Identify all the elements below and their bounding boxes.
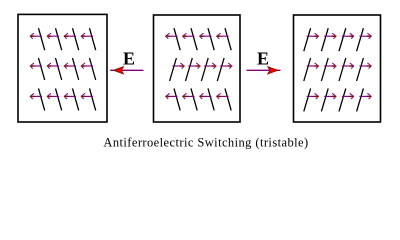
dipole unit right-box row3 col4 (tilt left, arrow right) bbox=[357, 88, 372, 111]
dipole unit right-box row1 col3 (tilt left, arrow right) bbox=[339, 28, 354, 51]
E field arrow pointing left (between left and middle boxes) bbox=[110, 67, 143, 74]
dipole unit left-box row2 col1 (tilt right, arrow left) bbox=[30, 58, 45, 80]
right box (ferroelectric state, polarization right) bbox=[294, 15, 381, 122]
dipole unit middle-box row3 col3 (tilt right, arrow left) bbox=[199, 88, 214, 110]
dipole unit left-box row3 col1 (tilt right, arrow left) bbox=[30, 88, 45, 110]
dipole unit middle-box row2 col4 (tilt left, arrow right) bbox=[217, 58, 232, 81]
dipole unit middle-box row1 col3 (tilt right, arrow left) bbox=[199, 28, 214, 50]
middle box (antiferroelectric state) bbox=[154, 15, 241, 122]
dipole unit right-box row3 col2 (tilt left, arrow right) bbox=[321, 88, 336, 111]
dipole unit left-box row1 col4 (tilt right, arrow left) bbox=[81, 28, 96, 50]
dipole unit left-box row1 col3 (tilt right, arrow left) bbox=[64, 28, 79, 50]
dipole unit left-box row2 col3 (tilt right, arrow left) bbox=[64, 58, 79, 80]
dipole unit left-box row1 col2 (tilt right, arrow left) bbox=[47, 28, 62, 50]
dipole unit right-box row3 col1 (tilt left, arrow right) bbox=[304, 88, 319, 111]
dipole unit middle-box row1 col1 (tilt right, arrow left) bbox=[165, 28, 180, 50]
E field arrow pointing right (between middle and right boxes) bbox=[247, 67, 281, 74]
dipole unit middle-box row3 col1 (tilt right, arrow left) bbox=[165, 88, 180, 110]
svg-text:E: E bbox=[123, 48, 135, 68]
dipole unit left-box row3 col3 (tilt right, arrow left) bbox=[64, 88, 79, 110]
dipole unit left-box row1 col1 (tilt right, arrow left) bbox=[30, 28, 45, 50]
dipole unit left-box row3 col4 (tilt right, arrow left) bbox=[81, 88, 96, 110]
svg-text:E: E bbox=[257, 48, 269, 68]
dipole unit middle-box row2 col2 (tilt left, arrow right) bbox=[186, 58, 201, 81]
dipole unit middle-box row2 col3 (tilt left, arrow right) bbox=[201, 58, 216, 81]
dipole unit middle-box row2 col1 (tilt left, arrow right) bbox=[170, 58, 185, 81]
dipole unit right-box row2 col3 (tilt left, arrow right) bbox=[339, 58, 354, 81]
dipole unit middle-box row1 col2 (tilt right, arrow left) bbox=[182, 28, 197, 50]
dipole unit right-box row1 col4 (tilt left, arrow right) bbox=[357, 28, 372, 51]
dipole unit right-box row2 col2 (tilt left, arrow right) bbox=[321, 58, 336, 81]
dipole unit left-box row2 col4 (tilt right, arrow left) bbox=[81, 58, 96, 80]
dipole unit right-box row3 col3 (tilt left, arrow right) bbox=[339, 88, 354, 111]
dipole unit left-box row2 col2 (tilt right, arrow left) bbox=[47, 58, 62, 80]
left box (ferroelectric state, polarization left) bbox=[18, 14, 107, 122]
dipole unit middle-box row3 col2 (tilt right, arrow left) bbox=[182, 88, 197, 110]
dipole unit middle-box row3 col4 (tilt right, arrow left) bbox=[216, 88, 231, 110]
dipole unit right-box row2 col4 (tilt left, arrow right) bbox=[357, 58, 372, 81]
dipole unit right-box row1 col2 (tilt left, arrow right) bbox=[321, 28, 336, 51]
dipole unit left-box row3 col2 (tilt right, arrow left) bbox=[47, 88, 62, 110]
dipole unit middle-box row1 col4 (tilt right, arrow left) bbox=[216, 28, 231, 50]
dipole unit right-box row1 col1 (tilt left, arrow right) bbox=[304, 28, 319, 51]
svg-text:Antiferroelectric Switching (t: Antiferroelectric Switching (tristable) bbox=[103, 135, 308, 149]
dipole unit right-box row2 col1 (tilt left, arrow right) bbox=[304, 58, 319, 81]
